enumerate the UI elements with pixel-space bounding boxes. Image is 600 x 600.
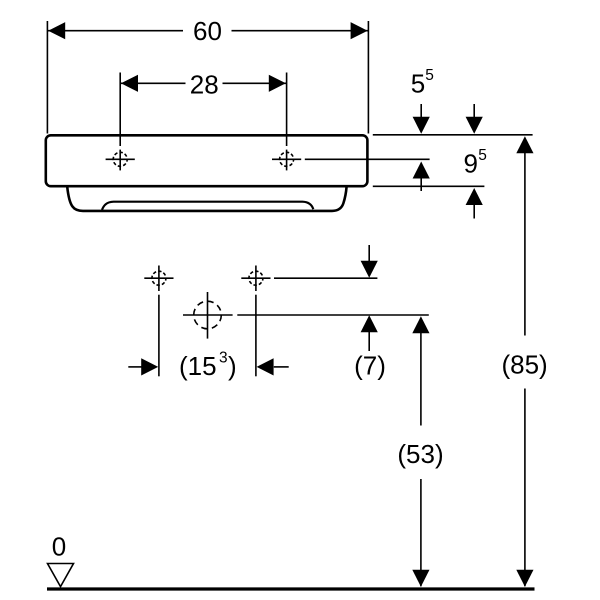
svg-text:3: 3 [219, 350, 228, 367]
svg-text:(53): (53) [397, 439, 443, 469]
washbasin rim outline [46, 135, 368, 186]
right mounting hole extension line [255, 295, 257, 377]
svg-text:60: 60 [193, 16, 222, 46]
svg-text:5: 5 [478, 147, 487, 164]
svg-text:(7): (7) [354, 350, 386, 380]
svg-text:5: 5 [411, 69, 425, 99]
drain centerline horizontal [183, 314, 233, 316]
dimension (15.3): right left-pointing arrowhead and stem [257, 358, 274, 375]
svg-text:0: 0 [52, 531, 66, 561]
dimension (85): up arrowhead, line, down arrowhead [516, 136, 533, 153]
svg-text:28: 28 [190, 69, 219, 99]
dimension 9.5: upper stem and down arrowhead [473, 104, 475, 119]
dimension 28: extension lines [119, 73, 121, 147]
dimension 60: left arrowhead [48, 22, 65, 39]
dimension 28: right arrowhead [269, 75, 286, 92]
dimension (7): lower up arrowhead and stem [361, 315, 378, 332]
floor line [47, 587, 535, 590]
apron bottom level reference line [373, 185, 485, 187]
left tap hole crosshair [106, 150, 135, 171]
svg-text:5: 5 [425, 67, 434, 84]
right mounting hole crosshair [241, 266, 270, 292]
datum zero triangle [48, 564, 74, 587]
left mounting hole extension line [158, 295, 160, 377]
rim level reference line [373, 134, 533, 136]
mounting holes level line [274, 277, 377, 279]
right tap hole crosshair [272, 150, 301, 171]
dimension 9.5: lower up arrowhead and stem [466, 188, 483, 205]
left mounting hole crosshair [144, 266, 173, 292]
dimension 5.5: lower up arrowhead and stem [413, 162, 430, 179]
svg-text:): ) [228, 351, 237, 381]
svg-text:(15: (15 [179, 351, 217, 381]
washbasin apron/skirt [67, 187, 346, 211]
drain centerline vertical [207, 292, 209, 339]
drain dashed circle [194, 301, 222, 329]
svg-text:(85): (85) [501, 350, 547, 380]
dimension 60: dimension line [47, 30, 183, 32]
svg-text:9: 9 [464, 149, 478, 179]
dimension 28: dimension line [120, 82, 185, 84]
dimension (15.3): left stem and right-pointing arrowhead [128, 366, 141, 368]
dimension (53): up arrowhead, line, down arrowhead [412, 316, 429, 333]
dimension 60: extension lines [46, 21, 48, 134]
dimension 5.5: upper stem and down arrowhead [420, 104, 422, 119]
dimension 28: left arrowhead [121, 75, 138, 92]
dimension (7): upper stem and down arrowhead [368, 245, 370, 262]
drain level line [237, 314, 428, 316]
dimension 60: right arrowhead [351, 22, 368, 39]
basin inner bowl lip [102, 202, 313, 210]
tap hole level reference line [305, 158, 430, 160]
